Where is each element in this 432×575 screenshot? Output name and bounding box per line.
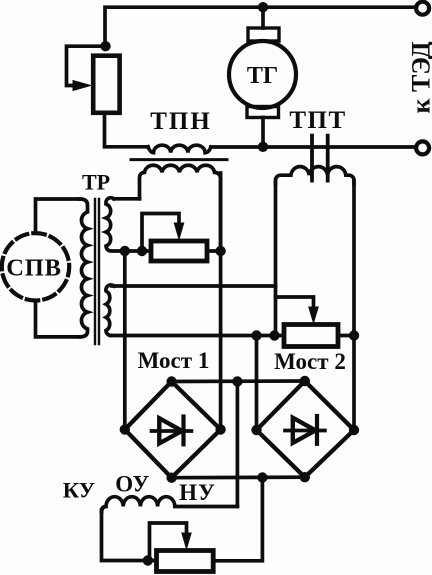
wire SPV top to TR primary	[36, 199, 81, 233]
wire R4 wiper	[150, 523, 187, 558]
transformer TR secondary upper winding	[106, 198, 125, 251]
node R4 left	[143, 555, 153, 565]
wire TG to main horizontal	[261, 118, 265, 148]
wire DC bottom rail between bridges	[172, 475, 305, 479]
resistor R4 (bottom rheostat)	[157, 551, 214, 572]
tachogenerator TG upper brush	[248, 28, 279, 41]
svg-text:ОУ: ОУ	[115, 472, 149, 497]
transformer TR secondary lower winding	[106, 285, 114, 336]
arrowhead into R1	[73, 80, 93, 91]
arrowhead into R2	[174, 223, 185, 242]
transformer TR core	[94, 199, 96, 344]
diode D2 inside Most2	[285, 429, 325, 433]
wire bottom rail down to R4 right	[213, 478, 262, 561]
node R3 left feeds	[251, 330, 261, 340]
wire R2 wiper	[142, 214, 179, 250]
svg-text:СПВ: СПВ	[6, 255, 62, 282]
arrowhead into R4	[181, 533, 192, 551]
current transformer TPT primary bars	[310, 136, 314, 181]
node R3 right	[349, 330, 359, 340]
node junction top-left above rheostat R1	[100, 41, 110, 51]
wire vertical left bridge feed	[123, 251, 127, 430]
wire DC top rail between bridges	[172, 379, 305, 383]
wire TPT right down to bridge 2	[352, 182, 356, 430]
wire top rail to TG	[261, 7, 265, 28]
current transformer TPT secondary winding	[276, 167, 355, 184]
svg-text:к ТЭД: к ТЭД	[407, 41, 432, 113]
diode D1 inside Most1	[152, 429, 192, 433]
svg-text:Мост 2: Мост 2	[274, 349, 346, 374]
wire TPN secondary left to TR secondary	[114, 197, 140, 201]
svg-text:ТГ: ТГ	[247, 63, 278, 89]
transformer TPN primary winding	[148, 145, 211, 153]
wire SPV bottom to TR primary	[36, 301, 81, 337]
transformer TPN secondary winding	[140, 165, 221, 251]
resistor R3 (right rheostat)	[284, 325, 338, 347]
machine TG circle	[229, 41, 296, 108]
svg-text:ТПН: ТПН	[150, 108, 212, 135]
svg-text:ТР: ТР	[82, 170, 110, 195]
arrowhead into R3	[308, 307, 319, 325]
wire main horizontal to lower terminal	[211, 145, 416, 149]
rectifier bridge Most2 diamond	[257, 381, 355, 477]
wire node to bridge2 left vertex	[255, 336, 259, 431]
wire OU left down to R4	[102, 510, 157, 561]
wire rheostat R1 wiper arm	[67, 46, 101, 85]
wire R2 right	[207, 249, 221, 253]
node TR upper secondary / rheostat net	[120, 246, 130, 256]
wire TR lower secondary bottom to rheostat R3	[111, 334, 284, 338]
wire R3 right	[338, 334, 354, 338]
transformer TPN core	[131, 158, 227, 161]
resistor R1 (top-left rheostat)	[93, 56, 119, 113]
node junction TG / main wire	[258, 142, 268, 152]
wire TR lower secondary top to TPT net	[112, 284, 276, 288]
node junction top rail / TG	[258, 2, 268, 12]
svg-text:НУ: НУ	[179, 480, 216, 505]
svg-text:Мост 1: Мост 1	[138, 348, 210, 373]
wire TPT left down	[274, 182, 278, 336]
tachogenerator TG lower brush	[247, 107, 279, 118]
wire R1 bottom to TPN primary	[105, 113, 149, 147]
wire top rail	[105, 7, 416, 46]
svg-text:ТПТ: ТПТ	[289, 107, 346, 134]
terminal к ТЭД upper	[416, 2, 429, 15]
resistor R2 (mid rheostat)	[151, 241, 207, 261]
exciter SPV dashed circle	[2, 233, 69, 300]
transformer TR primary winding	[80, 199, 88, 337]
wire to rheostat R2	[125, 249, 151, 253]
wire R3 wiper branch	[276, 297, 314, 307]
svg-text:КУ: КУ	[63, 478, 96, 503]
inductor OU winding	[102, 497, 238, 512]
wire vertical right bridge feed	[219, 173, 223, 430]
node R2 right	[215, 246, 225, 256]
terminal к ТЭД lower	[416, 141, 429, 154]
wire top rail down to OU coil	[236, 382, 240, 507]
rectifier bridge Most1 diamond	[125, 382, 221, 478]
